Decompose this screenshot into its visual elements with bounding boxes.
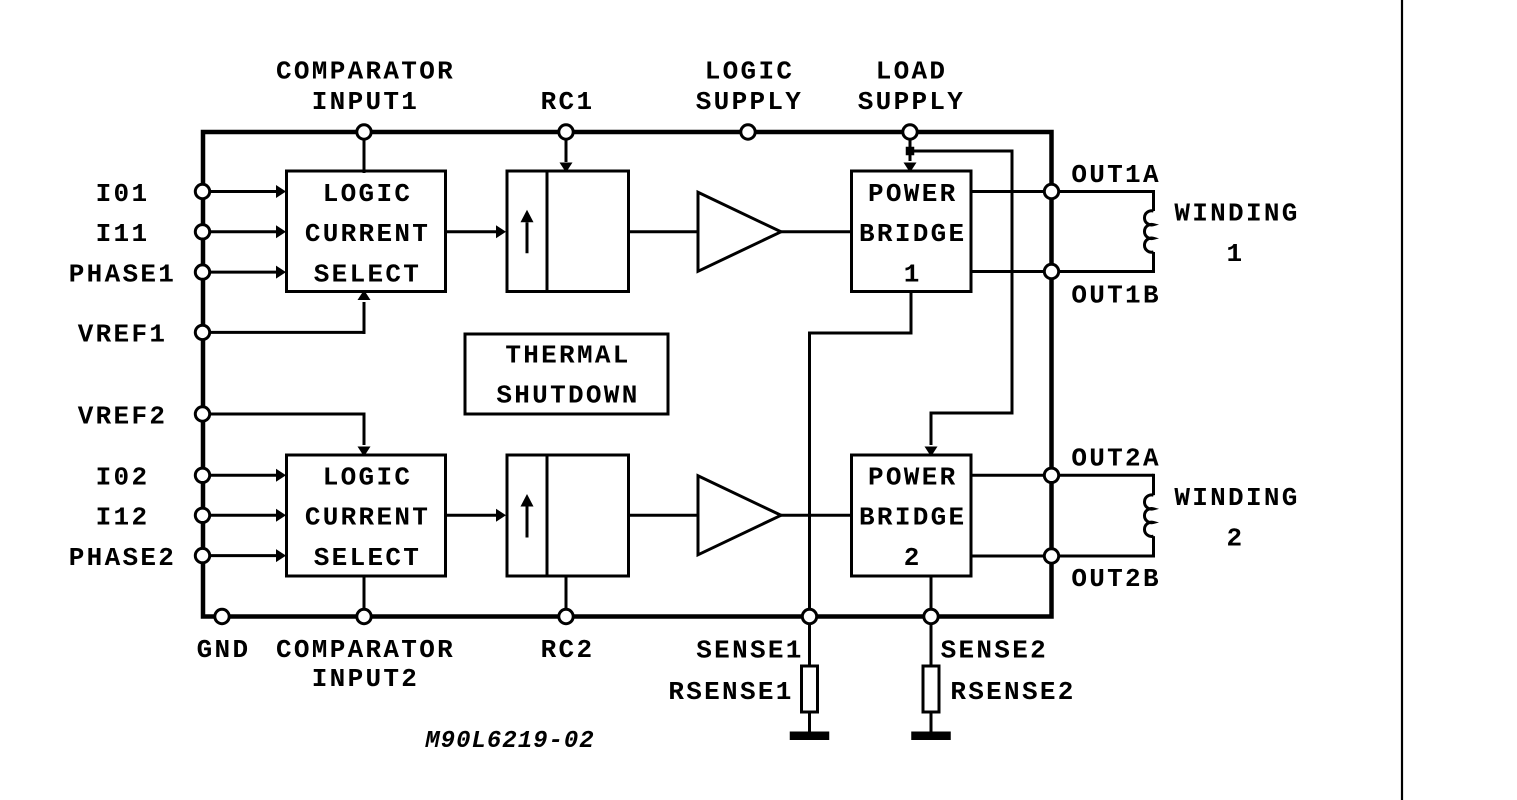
- svg-text:VREF2: VREF2: [78, 401, 168, 431]
- wire RSENSE1 to ground: [808, 712, 811, 733]
- wire LOGIC CURRENT SELECT 1 to monostable 1: [446, 230, 499, 233]
- op-amp output amplifier A2: [698, 476, 781, 555]
- wire monostable 1 to amplifier 1: [629, 230, 700, 233]
- svg-text:LOAD: LOAD: [876, 57, 948, 87]
- svg-text:2: 2: [1227, 524, 1245, 554]
- svg-text:OUT1B: OUT1B: [1071, 280, 1161, 310]
- divider monostable 2: [546, 455, 549, 576]
- pin VREF1 terminal: [195, 325, 209, 339]
- wire LOAD SUPPLY stub: [909, 139, 912, 151]
- wire PHASE1 input: [210, 271, 278, 274]
- inductor WINDING 1: [1152, 190, 1155, 211]
- pin LOGIC SUPPLY terminal: [741, 125, 755, 139]
- wire I01 input: [210, 190, 278, 193]
- pin I02 terminal: [195, 468, 209, 482]
- wire OUT1B: [971, 270, 1154, 273]
- wire I11 input: [210, 230, 278, 233]
- svg-text:GND: GND: [197, 635, 251, 665]
- wire monostable 2 to amplifier 2: [629, 514, 700, 517]
- up arrow symbol monostable 1: [526, 222, 529, 253]
- junction LOAD SUPPLY node: [906, 147, 915, 156]
- block monostable 2 (source switch): [507, 455, 629, 576]
- svg-text:PHASE1: PHASE1: [69, 259, 176, 289]
- wire LOAD SUPPLY to POWER BRIDGE 1: [909, 155, 912, 161]
- wire OUT1A: [971, 190, 1154, 193]
- wire POWER BRIDGE 1 to SENSE1: [910, 292, 913, 334]
- svg-text:SENSE1: SENSE1: [696, 636, 803, 666]
- svg-text:VREF1: VREF1: [78, 320, 168, 350]
- wire RC1 stub: [565, 139, 568, 162]
- inductor WINDING 2: [1152, 474, 1155, 495]
- svg-text:WINDING: WINDING: [1174, 483, 1299, 513]
- svg-text:RC2: RC2: [541, 635, 595, 665]
- svg-text:1: 1: [1227, 239, 1245, 269]
- wire RC2 stub: [565, 576, 568, 617]
- svg-text:M90L6219-02: M90L6219-02: [424, 728, 594, 755]
- pin OUT2A terminal: [1044, 468, 1058, 482]
- svg-text:PHASE2: PHASE2: [69, 543, 176, 573]
- wire COMPARATOR INPUT2 stub: [363, 576, 366, 617]
- resistor RSENSE2: [923, 666, 939, 712]
- ground symbol G1: [790, 732, 830, 741]
- block THERMAL SHUTDOWN: [465, 334, 668, 414]
- pin PHASE2 terminal: [195, 548, 209, 562]
- pin OUT1A terminal: [1044, 184, 1058, 198]
- svg-text:1: 1: [904, 259, 922, 289]
- svg-text:POWER: POWER: [868, 463, 958, 493]
- svg-text:I02: I02: [96, 463, 150, 493]
- pin COMPARATOR INPUT2 terminal: [357, 609, 371, 623]
- svg-text:2: 2: [904, 543, 922, 573]
- pin I11 terminal: [195, 225, 209, 239]
- svg-text:OUT1A: OUT1A: [1071, 160, 1161, 190]
- svg-text:INPUT2: INPUT2: [312, 664, 419, 694]
- svg-text:I11: I11: [96, 219, 150, 249]
- wire I02 input: [210, 474, 278, 477]
- pin COMPARATOR INPUT1 terminal: [357, 125, 371, 139]
- svg-text:COMPARATOR: COMPARATOR: [276, 57, 455, 87]
- svg-text:INPUT1: INPUT1: [312, 87, 419, 117]
- pin I12 terminal: [195, 508, 209, 522]
- svg-text:CURRENT: CURRENT: [305, 219, 430, 249]
- wire amplifier A1 to POWER BRIDGE 1: [781, 230, 853, 233]
- svg-text:RC1: RC1: [541, 87, 595, 117]
- up arrow symbol monostable 2: [526, 507, 529, 538]
- pin VREF2 terminal: [195, 407, 209, 421]
- svg-text:SHUTDOWN: SHUTDOWN: [496, 381, 639, 411]
- svg-text:BRIDGE: BRIDGE: [859, 219, 966, 249]
- pin OUT1B terminal: [1044, 264, 1058, 278]
- resistor RSENSE1: [802, 666, 818, 712]
- wire amplifier A2 to POWER BRIDGE 2: [781, 514, 853, 517]
- svg-text:SELECT: SELECT: [314, 259, 421, 289]
- svg-text:SELECT: SELECT: [314, 543, 421, 573]
- svg-text:LOGIC: LOGIC: [705, 57, 795, 87]
- svg-text:LOGIC: LOGIC: [323, 179, 413, 209]
- IC outer boundary box: [203, 132, 1052, 617]
- page edge rule: [1401, 0, 1403, 800]
- svg-text:OUT2A: OUT2A: [1071, 443, 1161, 473]
- svg-text:SENSE2: SENSE2: [941, 636, 1048, 666]
- svg-text:SUPPLY: SUPPLY: [696, 87, 803, 117]
- block LOGIC CURRENT SELECT 2: [287, 455, 446, 576]
- wire RSENSE2 to ground: [930, 712, 933, 733]
- op-amp output amplifier A1: [698, 192, 781, 271]
- svg-text:SUPPLY: SUPPLY: [858, 87, 965, 117]
- svg-text:I01: I01: [96, 179, 150, 209]
- svg-text:RSENSE1: RSENSE1: [668, 677, 793, 707]
- svg-text:POWER: POWER: [868, 179, 958, 209]
- wire LOGIC CURRENT SELECT 2 to monostable 2: [446, 514, 499, 517]
- pin RC2 terminal: [559, 609, 573, 623]
- wire COMPARATOR INPUT1 stub: [363, 139, 366, 173]
- pin LOAD SUPPLY terminal: [903, 125, 917, 139]
- block POWER BRIDGE 2: [852, 455, 972, 576]
- wire OUT2A: [971, 474, 1154, 477]
- pin SENSE1 terminal: [802, 609, 816, 623]
- svg-text:OUT2B: OUT2B: [1071, 564, 1161, 594]
- wire VREF1 input: [210, 331, 366, 334]
- pin RC1 terminal: [559, 125, 573, 139]
- divider monostable 1: [546, 171, 549, 292]
- wire OUT2B: [971, 555, 1154, 558]
- wire PHASE2 input: [210, 554, 278, 557]
- pin I01 terminal: [195, 184, 209, 198]
- block monostable 1 (source switch): [507, 171, 629, 292]
- pin OUT2B terminal: [1044, 549, 1058, 563]
- block POWER BRIDGE 1: [852, 171, 972, 292]
- wire LOAD SUPPLY branch to POWER BRIDGE 2: [910, 150, 1012, 153]
- pin GND terminal: [215, 609, 229, 623]
- svg-text:RSENSE2: RSENSE2: [950, 677, 1075, 707]
- svg-text:BRIDGE: BRIDGE: [859, 503, 966, 533]
- wire I12 input: [210, 514, 278, 517]
- ground symbol G2: [911, 732, 951, 741]
- pin PHASE1 terminal: [195, 265, 209, 279]
- wire VREF2 input: [210, 413, 366, 416]
- svg-text:WINDING: WINDING: [1174, 198, 1299, 228]
- svg-text:CURRENT: CURRENT: [305, 503, 430, 533]
- svg-text:COMPARATOR: COMPARATOR: [276, 635, 455, 665]
- block LOGIC CURRENT SELECT 1: [287, 171, 446, 292]
- svg-text:THERMAL: THERMAL: [505, 340, 630, 370]
- wire POWER BRIDGE 2 to SENSE2: [930, 576, 933, 666]
- pin SENSE2 terminal: [924, 609, 938, 623]
- svg-text:I12: I12: [96, 503, 150, 533]
- svg-text:LOGIC: LOGIC: [323, 463, 413, 493]
